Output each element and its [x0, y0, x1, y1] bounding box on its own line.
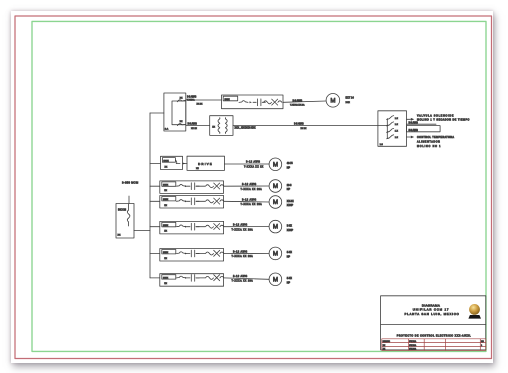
svg-text:1-X: 1-X — [395, 137, 399, 139]
wire starter S6 to motor M6 — [224, 278, 270, 279]
wire starter S4 to motor M4 — [224, 226, 270, 228]
starter S6 (breaker + fuse + contactor) — [160, 274, 224, 287]
svg-text:MOLINO NO 1: MOLINO NO 1 — [417, 146, 441, 148]
svg-text:XXHP: XXHP — [287, 230, 294, 232]
svg-text:INCOM: INCOM — [118, 208, 126, 211]
svg-text:XX 2X: XX 2X — [197, 104, 204, 106]
panel DP1 (top distribution panel) — [164, 93, 186, 131]
wire starter S7 to motor M7 — [283, 101, 326, 102]
svg-text:ALIMENTADOR: ALIMENTADOR — [417, 141, 440, 144]
wire starter S3 to motor M3 — [224, 200, 270, 203]
svg-text:1-8: 1-8 — [380, 144, 384, 146]
svg-text:T-XXXA XX 20A: T-XXXA XX 20A — [232, 280, 254, 283]
svg-text:PROYECTO DE CONTROL ELECTRICO: PROYECTO DE CONTROL ELECTRICO XXX-AUXIL — [397, 334, 472, 337]
svg-text:T-XXXA XX 2A: T-XXXA XX 2A — [290, 103, 305, 106]
svg-text:XXX: XXX — [346, 102, 351, 104]
svg-text:XX: XX — [164, 205, 167, 207]
svg-text:1-X: 1-X — [395, 131, 399, 133]
svg-text:3-12 AWG: 3-12 AWG — [233, 224, 248, 227]
svg-text:XXX , XXXXXX-XXX: XXX , XXXXXX-XXX — [235, 128, 257, 130]
svg-text:1: 1 — [481, 345, 482, 347]
svg-text:DIBUJO: DIBUJO — [383, 341, 391, 343]
breaker CB-A (panel top breaker) — [177, 97, 186, 101]
svg-text:3-350 MCM: 3-350 MCM — [122, 181, 138, 185]
svg-text:M: M — [273, 161, 278, 168]
starter S7 (fuse + contactor) — [222, 95, 284, 109]
motor M1 — [269, 158, 282, 171]
motor M3 — [269, 196, 282, 209]
title block frame — [381, 296, 486, 350]
drive U1 — [187, 156, 225, 170]
svg-text:20-3: 20-3 — [287, 185, 292, 187]
svg-text:XX-XX: XX-XX — [287, 201, 294, 203]
svg-text:XX: XX — [164, 258, 167, 260]
motor M7 — [326, 94, 340, 108]
svg-text:T-XXXA XX 20A: T-XXXA XX 20A — [232, 255, 254, 258]
svg-text:XX: XX — [118, 235, 121, 237]
svg-text:VALVULA SOLENOIDE: VALVULA SOLENOIDE — [417, 114, 454, 117]
wire CP1 output 3 loop — [407, 126, 441, 132]
wire bus to starter S6 — [150, 277, 160, 279]
svg-text:3-12 AWG: 3-12 AWG — [233, 251, 248, 254]
svg-text:PLANTA SAN LUIS, MEXICO: PLANTA SAN LUIS, MEXICO — [404, 312, 459, 316]
svg-text:HP: HP — [287, 257, 291, 259]
wire bus to breaker CB1 — [150, 163, 161, 165]
svg-text:XX: XX — [212, 126, 215, 128]
svg-text:XX: XX — [196, 168, 199, 170]
svg-text:FECHA: FECHA — [409, 348, 416, 351]
svg-text:3X0X: 3X0X — [163, 185, 169, 187]
svg-text:HP: HP — [287, 189, 291, 191]
svg-text:3-12 AWG: 3-12 AWG — [242, 183, 257, 186]
svg-text:M: M — [273, 251, 278, 258]
switch SW1 in CP1 — [387, 116, 399, 120]
svg-text:CONTROL TEMPERATURA: CONTROL TEMPERATURA — [417, 136, 454, 139]
svg-text:3-8 AWG: 3-8 AWG — [409, 121, 418, 124]
svg-text:HP: HP — [287, 283, 291, 285]
switch SW2 in CP1 — [387, 122, 399, 126]
motor M4 — [269, 220, 282, 233]
svg-text:M: M — [273, 199, 278, 206]
wire CP1 output 2 — [407, 123, 437, 125]
svg-text:XX 2X: XX 2X — [191, 128, 198, 130]
node CP1 internal bus — [386, 119, 388, 138]
svg-text:XX 3X: XX 3X — [301, 128, 308, 130]
svg-text:M: M — [330, 97, 335, 104]
wire CP1 output 1 with arrow — [407, 118, 415, 121]
wire transformer T1 to control panel CP1 — [233, 125, 378, 127]
svg-text:3-12 AWG: 3-12 AWG — [242, 198, 257, 201]
wire bus to starter S2 — [150, 185, 160, 187]
svg-text:3X0X: 3X0X — [163, 199, 169, 201]
svg-text:XX: XX — [180, 97, 183, 99]
wire DRIVE U1 to motor M1 — [225, 163, 270, 165]
switch SW4 in CP1 — [387, 135, 399, 139]
svg-text:HP: HP — [287, 168, 291, 170]
wire bus to starter S5 — [150, 253, 160, 255]
breaker INCOM (main disconnect) — [116, 204, 134, 239]
svg-text:MOLINO 1 Y SECADOR DE TIEMPO: MOLINO 1 Y SECADOR DE TIEMPO — [417, 119, 470, 122]
wire incoming feeder stub — [128, 196, 130, 204]
motor M5 — [269, 247, 282, 260]
svg-text:T-XXXA XX 20A: T-XXXA XX 20A — [232, 228, 254, 231]
svg-text:3-8 AWG: 3-8 AWG — [409, 129, 418, 132]
svg-text:40-75: 40-75 — [287, 163, 294, 165]
svg-text:EXT 14: EXT 14 — [346, 97, 355, 100]
svg-text:XX: XX — [164, 190, 167, 192]
svg-text:FECHA: FECHA — [409, 344, 416, 347]
svg-text:3-XX: 3-XX — [287, 225, 293, 227]
wire starter S5 to motor M5 — [224, 252, 270, 254]
wire CB1 to DRIVE U1 — [183, 163, 188, 165]
breaker CB1 — [161, 156, 183, 169]
svg-text:DRIVE: DRIVE — [198, 162, 213, 166]
svg-text:3-8 AWG: 3-8 AWG — [187, 95, 196, 98]
svg-text:3-XX: 3-XX — [287, 252, 293, 254]
wire starter S2 to motor M2 — [224, 185, 270, 187]
svg-text:3-8 AWG: 3-8 AWG — [294, 123, 304, 126]
svg-text:T-XXXA XX 3X: T-XXXA XX 3X — [244, 165, 264, 168]
wire bus to panel DP1 — [150, 112, 164, 114]
control panel CP1 — [378, 111, 407, 147]
svg-text:1-X: 1-X — [395, 118, 399, 120]
revision table — [382, 339, 486, 351]
svg-text:3X3X: 3X3X — [225, 99, 231, 101]
svg-text:3X2X: 3X2X — [163, 161, 169, 163]
switch SW3 in CP1 — [387, 128, 399, 132]
svg-text:M: M — [273, 276, 278, 283]
svg-text:3-XX: 3-XX — [287, 278, 293, 280]
wire CP1 internal feed — [378, 125, 387, 127]
breaker CB-B (panel bottom breaker) — [177, 121, 186, 125]
table cell labels — [383, 340, 485, 351]
starter S2 (breaker + fuse + contactor) — [160, 181, 224, 194]
wire CB-B to transformer T1 — [186, 124, 210, 126]
wire CB-A to starter S7 — [186, 99, 222, 101]
starter S5 (breaker + fuse + contactor) — [160, 249, 224, 262]
svg-text:1-X: 1-X — [395, 124, 399, 126]
svg-text:3-12 AWG: 3-12 AWG — [246, 161, 260, 164]
motor M2 — [269, 180, 282, 193]
svg-text:T-XXXA XX 20A: T-XXXA XX 20A — [241, 188, 263, 191]
drawing frame border (green) — [32, 21, 486, 351]
svg-text:2-A: 2-A — [165, 127, 169, 130]
svg-text:XX: XX — [164, 283, 167, 285]
svg-text:3X0X: 3X0X — [163, 277, 169, 279]
wire INCOM to bus — [134, 230, 150, 232]
node BUS (main feeder bus) — [149, 113, 151, 278]
svg-text:3X0X: 3X0X — [163, 225, 169, 227]
transformer T1 — [210, 116, 233, 136]
svg-text:XXHP: XXHP — [287, 205, 294, 207]
svg-text:XX: XX — [165, 166, 168, 168]
svg-text:3-12 AWG: 3-12 AWG — [233, 275, 248, 278]
svg-text:FECHA: FECHA — [409, 340, 416, 343]
starter S4 (breaker + fuse + contactor) — [160, 221, 224, 234]
svg-text:M: M — [273, 224, 278, 231]
svg-text:3-8 AWG: 3-8 AWG — [188, 122, 197, 125]
svg-text:XX: XX — [180, 121, 183, 123]
svg-text:T-XXXA: T-XXXA — [187, 98, 195, 101]
svg-text:UNIFILAR CCM 17: UNIFILAR CCM 17 — [413, 308, 450, 312]
svg-text:3-8 AWG: 3-8 AWG — [293, 99, 303, 102]
svg-text:XX: XX — [164, 231, 167, 233]
starter S3 (breaker + fuse + contactor) — [160, 196, 224, 209]
wire bus to starter S4 — [150, 226, 160, 228]
wire bus to starter S3 — [150, 200, 160, 202]
svg-text:T-XXXA XX 20A: T-XXXA XX 20A — [241, 203, 263, 206]
logo golden sphere — [468, 304, 481, 319]
wire CP1 output 4 with arrow — [407, 136, 415, 139]
svg-text:M: M — [273, 183, 278, 190]
svg-text:3X0X: 3X0X — [163, 252, 169, 254]
motor M6 — [269, 273, 282, 286]
